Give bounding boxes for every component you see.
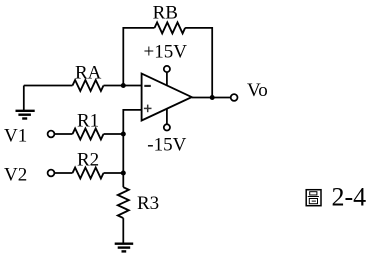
pin V- (bottom power pin with open circle) xyxy=(164,109,170,131)
node C junction dot (R2 / R3) xyxy=(121,171,126,176)
svg-text:R1: R1 xyxy=(77,110,99,131)
resistor R1 xyxy=(73,129,104,140)
caption text 2-4 xyxy=(332,183,367,212)
label +15V xyxy=(144,41,188,62)
wire feedback loop left vertical (node A up to RB) xyxy=(123,28,154,86)
wire V2 to R2 and R2 to node C xyxy=(55,172,124,174)
pin V+ (top power pin with open circle) xyxy=(164,66,170,86)
node output junction dot xyxy=(210,95,215,100)
svg-text:R3: R3 xyxy=(137,193,159,214)
wire R3 to bottom ground xyxy=(122,218,124,243)
label Vo xyxy=(247,80,268,101)
label V2 xyxy=(4,164,27,185)
resistor RA xyxy=(73,80,104,91)
resistor R3 xyxy=(118,187,129,218)
label RA xyxy=(75,62,102,83)
label V1 xyxy=(4,125,27,146)
label R1 xyxy=(77,110,99,131)
wire ground drop at left xyxy=(23,86,25,111)
wire RA input from ground corner to op-amp inverting input xyxy=(24,85,142,87)
svg-text:RA: RA xyxy=(75,62,102,83)
wire op-amp output to Vo terminal xyxy=(192,97,231,99)
svg-text:+15V: +15V xyxy=(144,41,188,62)
op-amp U1 xyxy=(142,74,192,121)
node A junction dot (RA / RB / inverting input) xyxy=(121,83,126,88)
resistor R2 xyxy=(73,168,104,179)
wire feedback loop right vertical (RB down to output node) xyxy=(185,28,212,98)
wire non-inverting input (from op-amp + down to node B) xyxy=(123,110,141,134)
node B junction dot (R1 / + input / bus) xyxy=(121,132,126,137)
label -15V xyxy=(147,135,186,156)
wire bus node B to node C xyxy=(122,134,124,173)
svg-text:V2: V2 xyxy=(4,164,27,185)
terminal V1 (open circle) xyxy=(48,131,55,138)
label RB xyxy=(153,3,178,24)
label R3 xyxy=(137,193,159,214)
svg-text:2-4: 2-4 xyxy=(332,183,367,212)
terminal Vo (open circle) xyxy=(231,94,238,101)
wire node C down to R3 xyxy=(122,173,124,187)
caption figure glyph (CJK character drawn as strokes) xyxy=(306,190,321,206)
svg-text:RB: RB xyxy=(153,3,178,24)
resistor RB xyxy=(155,22,186,33)
label R2 xyxy=(77,149,99,170)
svg-text:-15V: -15V xyxy=(147,135,186,156)
terminal V2 (open circle) xyxy=(48,170,55,177)
svg-text:Vo: Vo xyxy=(247,80,268,101)
svg-text:V1: V1 xyxy=(4,125,27,146)
ground (bottom, under R3) xyxy=(115,244,134,252)
svg-text:R2: R2 xyxy=(77,149,99,170)
ground (left, at RA input) xyxy=(16,111,35,119)
wire V1 to R1 and R1 to node B xyxy=(55,133,124,135)
